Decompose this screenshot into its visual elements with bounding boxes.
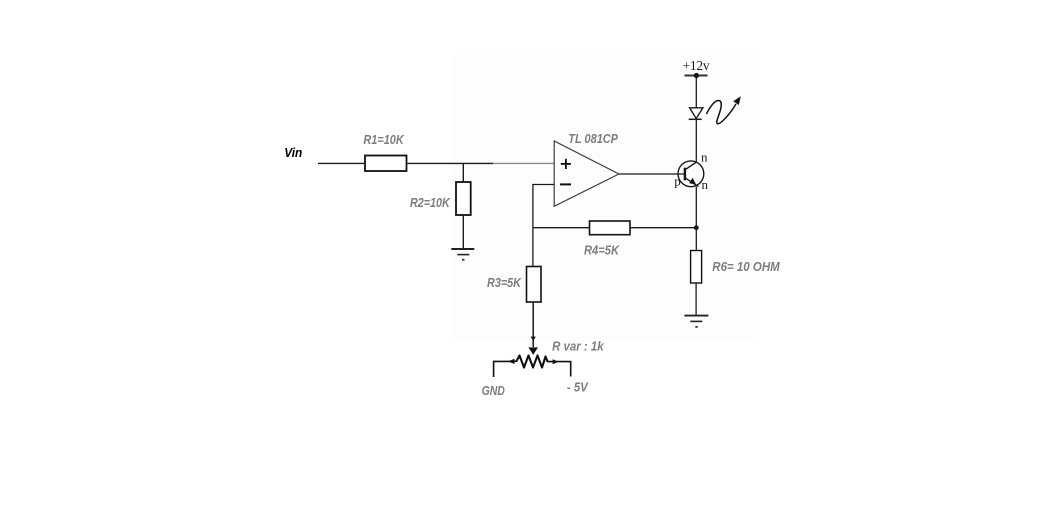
svg-text:TL 081CP: TL 081CP — [568, 132, 618, 146]
svg-text:n: n — [701, 150, 708, 165]
potentiometer zigzag — [517, 356, 548, 368]
svg-text:- 5V: - 5V — [567, 381, 589, 395]
wire transistor emitter down to junction — [695, 187, 697, 228]
wire R2 to ground — [462, 215, 464, 248]
LED light emission squiggle arrow — [707, 101, 737, 124]
transistor Q1 circle — [678, 161, 704, 187]
wire LED to transistor — [695, 120, 697, 162]
svg-text:R6= 10 OHM: R6= 10 OHM — [712, 260, 780, 274]
wire junction to R6 — [695, 228, 697, 251]
wire +12v to LED — [695, 76, 697, 108]
op-amp + symbol — [561, 159, 571, 169]
node junction dot — [694, 225, 699, 230]
transistor emitter arrowhead — [689, 178, 696, 185]
background panel — [453, 55, 758, 339]
node dot on +12v rail — [694, 73, 699, 78]
wire feedback horizontal — [533, 227, 695, 229]
transistor emitter line — [686, 178, 699, 186]
wire junction down to R2 — [462, 163, 464, 182]
svg-text:Vin: Vin — [284, 146, 302, 160]
resistor R6 — [691, 251, 702, 284]
potentiometer R var wiper arrows — [531, 337, 536, 341]
svg-text:R1=10K: R1=10K — [363, 133, 404, 147]
resistor R1 — [365, 156, 407, 172]
svg-text:R2=10K: R2=10K — [410, 196, 451, 210]
wire R3 to potentiometer wiper — [532, 302, 534, 347]
wire - input to left — [533, 184, 554, 186]
svg-text:GND: GND — [482, 384, 505, 398]
svg-text:R var : 1k: R var : 1k — [552, 340, 604, 354]
wire R6 to ground — [695, 283, 697, 315]
resistor R3 — [527, 267, 542, 303]
ground under R2 — [451, 249, 474, 260]
svg-text:+12v: +12v — [683, 58, 710, 73]
op-amp U1 TL 081CP — [554, 141, 619, 206]
wire vertical down to R3 — [532, 184, 534, 267]
wire right arm of potentiometer — [548, 362, 571, 377]
ground under R6 — [684, 316, 708, 327]
power +12v rail bar — [685, 75, 708, 77]
LED cathode bar — [689, 118, 702, 120]
transistor collector line — [686, 162, 697, 169]
resistor R4 — [590, 221, 631, 235]
wire left arm of potentiometer — [494, 361, 517, 377]
arrowhead right — [553, 359, 559, 364]
wire Vin to R1 — [318, 162, 365, 164]
resistor R2 — [456, 182, 471, 215]
svg-text:R3=5K: R3=5K — [487, 276, 522, 290]
arrowhead left — [508, 359, 515, 364]
svg-text:R4=5K: R4=5K — [584, 244, 620, 258]
wire op-amp output to base — [619, 173, 684, 175]
wire segment (lighter) to + input — [493, 162, 554, 164]
op-amp - symbol — [560, 183, 571, 185]
LED D1 triangle — [690, 108, 703, 119]
svg-text:n: n — [702, 177, 709, 192]
svg-text:p: p — [674, 173, 681, 188]
wire R1 to op-amp + input — [407, 162, 494, 164]
transistor base bar — [684, 168, 686, 181]
